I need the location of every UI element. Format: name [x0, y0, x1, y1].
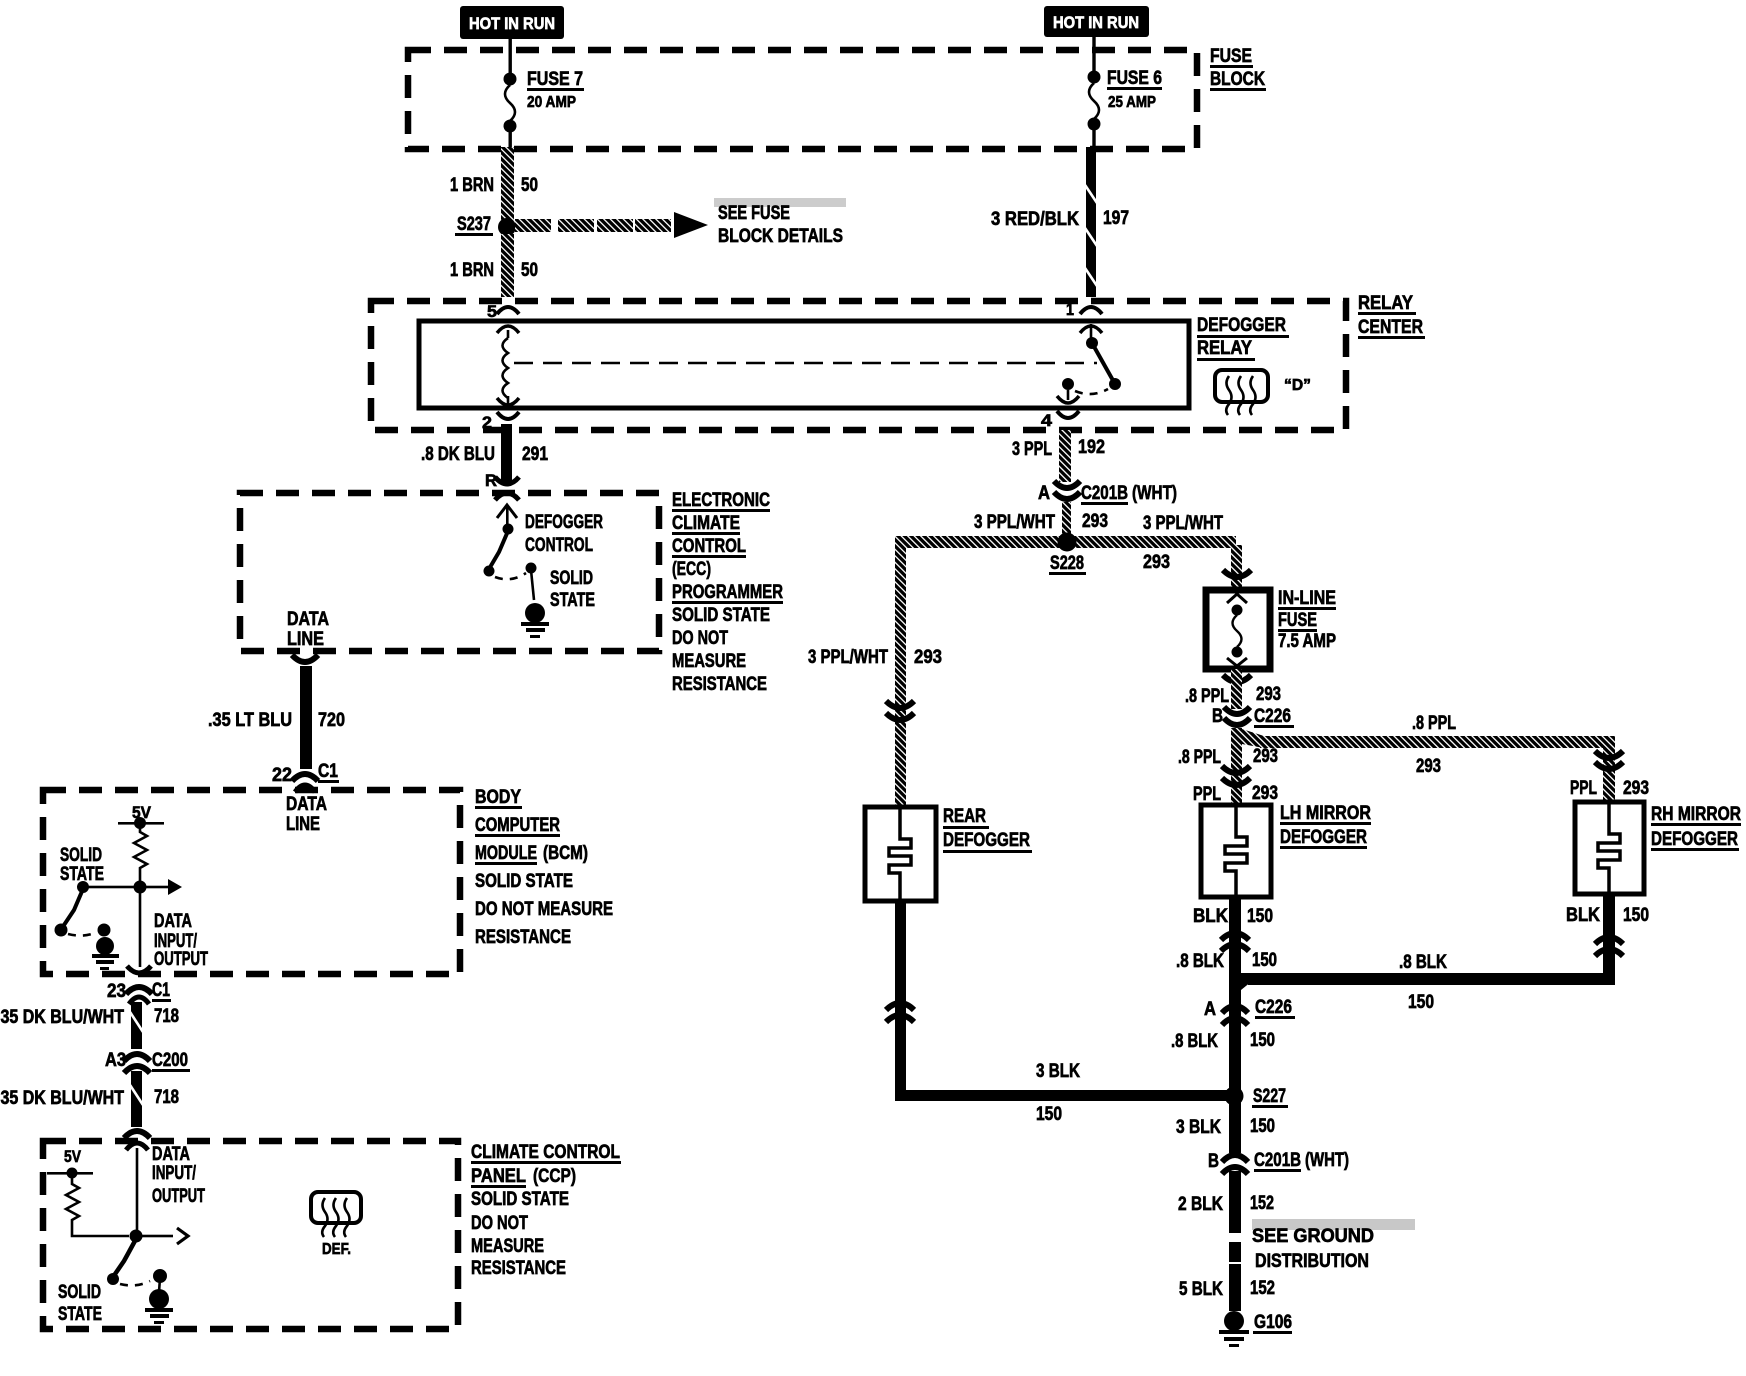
LH mirror defogger (box) — [1201, 805, 1271, 897]
svg-text:(WHT): (WHT) — [1305, 1150, 1349, 1171]
svg-text:FUSE: FUSE — [1210, 46, 1252, 67]
coil to switch dashed link — [514, 362, 1097, 365]
node DATA LINE (ECC) — [287, 609, 329, 650]
connector C226 pin A labels — [1204, 997, 1295, 1020]
wire 3 PPL 192 (relay to C201B), hatched — [1059, 430, 1071, 482]
svg-text:CLIMATE CONTROL: CLIMATE CONTROL — [471, 1142, 620, 1163]
note SEE GROUND DISTRIBUTION — [1252, 1219, 1415, 1272]
svg-text:.8 BLK: .8 BLK — [1176, 951, 1224, 972]
svg-text:293: 293 — [1082, 511, 1108, 532]
svg-text:DEFOGGER: DEFOGGER — [1280, 827, 1367, 848]
svg-text:293: 293 — [1416, 756, 1441, 777]
power label HOT IN RUN (left) — [460, 6, 564, 39]
defrost icon DEF. — [311, 1192, 361, 1258]
svg-text:PANEL: PANEL — [471, 1166, 526, 1187]
svg-text:152: 152 — [1250, 1193, 1274, 1214]
svg-text:.8 PPL: .8 PPL — [1178, 747, 1221, 768]
svg-text:RESISTANCE: RESISTANCE — [475, 927, 571, 948]
svg-text:BLK: BLK — [1193, 906, 1228, 927]
svg-text:A3: A3 — [105, 1050, 126, 1071]
svg-text:STATE: STATE — [550, 590, 595, 611]
svg-text:293: 293 — [1256, 684, 1281, 705]
splice S237 — [498, 218, 516, 236]
svg-text:50: 50 — [521, 260, 538, 281]
splice label S227 — [1252, 1086, 1288, 1108]
in-line fuse label — [1278, 588, 1336, 652]
svg-text:DEF.: DEF. — [322, 1241, 351, 1258]
svg-text:FUSE 6: FUSE 6 — [1107, 68, 1162, 89]
electronic climate control programmer (dashed box) — [240, 493, 659, 651]
svg-text:291: 291 — [522, 444, 548, 465]
svg-text:.8 BLK: .8 BLK — [1399, 952, 1447, 973]
wire label BLK 150 (RH) — [1566, 905, 1649, 926]
pin 2 exit chevrons — [497, 398, 519, 419]
svg-text:C201B: C201B — [1254, 1150, 1301, 1171]
wire .35 LT BLU 720 (ECC to BCM) — [300, 666, 312, 769]
wire 3 RED/BLK 197 (fuse 6 to relay), black with white slashes — [1085, 147, 1097, 297]
LH mirror heater element — [1225, 806, 1247, 896]
splice label S228 — [1049, 552, 1170, 575]
wire S228 to in-line fuse, hatched — [1231, 545, 1242, 587]
svg-text:.35 DK BLU/WHT: .35 DK BLU/WHT — [0, 1007, 124, 1028]
wire break segments (see ground distribution) — [1229, 1242, 1241, 1311]
wire BLK 150 below LH mirror — [1229, 897, 1241, 1097]
svg-text:23: 23 — [107, 981, 126, 1002]
defogger relay (inner solid box) — [419, 321, 1189, 408]
svg-text:25 AMP: 25 AMP — [1108, 94, 1156, 111]
wire .8 DK BLU 291 (relay pin 2 to ECC) — [501, 424, 512, 484]
ECC exit chevron — [292, 655, 318, 662]
BCM exit chevron — [127, 966, 151, 973]
svg-text:S227: S227 — [1253, 1086, 1286, 1107]
svg-text:150: 150 — [1623, 905, 1649, 926]
svg-text:3 PPL/WHT: 3 PPL/WHT — [808, 647, 888, 668]
svg-text:B: B — [1208, 1151, 1219, 1172]
svg-text:197: 197 — [1103, 208, 1129, 229]
svg-text:B: B — [1212, 706, 1223, 727]
wire .35 DK BLU/WHT 718 (23 to C200) — [130, 1002, 143, 1049]
wire continuation chevrons (left branch) — [886, 701, 914, 720]
defogger relay label — [1197, 315, 1289, 361]
svg-text:293: 293 — [1623, 778, 1649, 799]
RH mirror heater element — [1598, 803, 1620, 893]
svg-text:S237: S237 — [457, 214, 491, 235]
wire from HOT IN RUN to fuse 7 — [509, 39, 512, 75]
svg-text:.8 DK BLU: .8 DK BLU — [421, 444, 495, 465]
fuse block (dashed box) — [408, 50, 1197, 149]
ECC switch labels — [525, 512, 603, 611]
wire label .8 DK BLU 291 — [421, 444, 548, 465]
svg-text:RH MIRROR: RH MIRROR — [1651, 804, 1741, 825]
chevron above in-line fuse — [1223, 570, 1251, 577]
wire label 1 BRN 50 (lower) — [450, 260, 538, 281]
CCP data node and arrow — [130, 1228, 189, 1244]
svg-text:293: 293 — [1252, 783, 1278, 804]
wire label 1 BRN 50 (upper) — [450, 175, 538, 196]
svg-text:2: 2 — [482, 413, 492, 432]
continuation chevrons (LH ground wire) — [1221, 933, 1249, 951]
svg-text:C226: C226 — [1254, 706, 1291, 727]
wire .8 PPL 293 down to LH mirror, hatched — [1231, 728, 1242, 807]
wire 3 PPL/WHT 293 horizontal, hatched — [896, 536, 1236, 548]
svg-text:(CCP): (CCP) — [533, 1166, 576, 1187]
wire label 3 BLK 150 — [1176, 1116, 1275, 1138]
svg-text:C201B: C201B — [1081, 483, 1128, 504]
svg-text:BLOCK DETAILS: BLOCK DETAILS — [718, 226, 843, 247]
svg-text:FUSE 7: FUSE 7 — [527, 69, 583, 90]
connector C201B pin B — [1222, 1155, 1248, 1174]
svg-text:150: 150 — [1252, 950, 1277, 971]
connector C200 labels — [105, 1050, 190, 1072]
svg-text:SEE FUSE: SEE FUSE — [718, 203, 790, 224]
fuse F7 (FUSE 7 20 AMP) — [504, 73, 517, 150]
svg-text:4: 4 — [1041, 411, 1053, 430]
svg-text:152: 152 — [1250, 1278, 1275, 1299]
BCM label column — [475, 787, 613, 948]
BCM data node and arrow — [83, 879, 182, 895]
wire continuation chevrons (to LH mirror) — [1222, 766, 1250, 785]
pin 5 entry chevrons — [497, 307, 519, 333]
svg-text:718: 718 — [154, 1087, 179, 1108]
svg-text:COMPUTER: COMPUTER — [475, 815, 560, 836]
svg-text:20 AMP: 20 AMP — [527, 94, 576, 111]
wire .35 DK BLU/WHT 718 (C200 to CCP) — [130, 1071, 143, 1127]
relay coil — [503, 330, 510, 404]
splice label S237 — [455, 214, 493, 236]
svg-text:SOLID: SOLID — [58, 1282, 101, 1303]
svg-text:DISTRIBUTION: DISTRIBUTION — [1255, 1251, 1369, 1272]
svg-text:A: A — [1204, 999, 1216, 1020]
note SEE FUSE BLOCK DETAILS — [714, 198, 846, 247]
svg-text:(WHT): (WHT) — [1132, 483, 1177, 504]
svg-text:RESISTANCE: RESISTANCE — [672, 674, 767, 695]
svg-text:CLIMATE: CLIMATE — [672, 513, 740, 534]
relay switch — [1062, 324, 1121, 400]
svg-text:2 BLK: 2 BLK — [1178, 1194, 1223, 1215]
svg-text:MEASURE: MEASURE — [672, 651, 746, 672]
svg-text:.35 DK BLU/WHT: .35 DK BLU/WHT — [0, 1088, 124, 1109]
connector C226 pin B — [1224, 707, 1250, 725]
svg-text:150: 150 — [1036, 1104, 1062, 1125]
svg-text:720: 720 — [318, 710, 345, 731]
svg-text:50: 50 — [521, 175, 538, 196]
wire 3 BLK 150 horizontal (rear defogger to S227) — [895, 1090, 1235, 1101]
wire label .8 BLK 150 (below C226 A) — [1171, 1030, 1275, 1052]
svg-text:C1: C1 — [152, 980, 170, 1001]
svg-text:.8 BLK: .8 BLK — [1171, 1031, 1218, 1052]
svg-text:1 BRN: 1 BRN — [450, 175, 494, 196]
svg-text:FUSE: FUSE — [1278, 610, 1317, 631]
ECC label column — [672, 490, 783, 695]
svg-text:SOLID STATE: SOLID STATE — [475, 871, 573, 892]
svg-text:DO NOT MEASURE: DO NOT MEASURE — [475, 899, 613, 920]
svg-text:SOLID: SOLID — [550, 568, 593, 589]
pin 4 exit chevrons — [1057, 396, 1079, 418]
wire label PPL 293 (RH mirror) — [1570, 778, 1649, 799]
svg-text:RELAY: RELAY — [1358, 293, 1413, 314]
svg-text:REAR: REAR — [943, 806, 986, 827]
svg-text:MODULE: MODULE — [475, 843, 537, 864]
svg-text:STATE: STATE — [58, 1304, 102, 1325]
ground G106 — [1224, 1311, 1244, 1331]
connector C201B pin B labels — [1208, 1150, 1349, 1172]
svg-text:DATA: DATA — [154, 911, 192, 932]
splice S228 — [1058, 533, 1077, 552]
svg-text:HOT IN RUN: HOT IN RUN — [469, 14, 555, 33]
wire label .35 LT BLU 720 — [208, 710, 345, 731]
svg-text:DATA: DATA — [152, 1144, 190, 1165]
fuse F6 (FUSE 6 25 AMP) — [1088, 71, 1101, 150]
svg-text:LINE: LINE — [286, 814, 320, 835]
svg-text:150: 150 — [1408, 992, 1434, 1013]
RH mirror defogger label — [1651, 804, 1741, 851]
wire labels .8 PPL 293 (left vertical) — [1178, 746, 1278, 768]
ECC defogger control switch — [484, 505, 537, 600]
continuation chevrons (RH ground wire) — [1595, 937, 1623, 956]
svg-text:CENTER: CENTER — [1358, 317, 1423, 338]
CCP 5V supply — [47, 1147, 93, 1179]
wire from HOT IN RUN to fuse 6 — [1092, 37, 1095, 73]
wire 1 BRN 50 (fuse block to S237), hatched — [501, 147, 514, 221]
svg-text:.8 PPL: .8 PPL — [1185, 686, 1229, 707]
svg-text:5 BLK: 5 BLK — [1179, 1279, 1223, 1300]
chevron on RH branch — [1595, 751, 1623, 769]
svg-text:BLOCK: BLOCK — [1210, 69, 1265, 90]
CCP label column — [471, 1142, 621, 1279]
CCP pull-up resistor — [66, 1176, 129, 1236]
BCM output line to pin 23 — [139, 893, 142, 967]
svg-text:150: 150 — [1247, 906, 1273, 927]
svg-text:(ECC): (ECC) — [672, 559, 711, 580]
climate control panel (dashed box) — [43, 1141, 458, 1329]
svg-text:SEE GROUND: SEE GROUND — [1252, 1226, 1374, 1247]
rear defogger label — [943, 806, 1032, 853]
svg-text:SOLID STATE: SOLID STATE — [471, 1189, 569, 1210]
svg-text:5V: 5V — [64, 1147, 82, 1166]
svg-text:G106: G106 — [1254, 1312, 1292, 1333]
svg-text:DO NOT: DO NOT — [471, 1213, 528, 1234]
wire label 3 RED/BLK 197 — [991, 208, 1129, 230]
svg-text:“D”: “D” — [1284, 377, 1311, 394]
wire .8 PPL 293 (fuse to C226), hatched — [1231, 669, 1242, 709]
wire .8 PPL 293 horizontal to RH mirror, hatched — [1260, 736, 1615, 748]
RH branch: wire down to RH mirror, hatched — [1603, 748, 1615, 802]
svg-text:22: 22 — [272, 765, 292, 786]
BCM switch labels — [60, 845, 104, 885]
pin 1 entry chevrons — [1080, 307, 1102, 333]
svg-text:.35 LT BLU: .35 LT BLU — [208, 710, 292, 731]
ECC switch ground — [525, 603, 545, 623]
wire 3 PPL/WHT 293 left vertical to rear defogger, hatched — [895, 536, 906, 807]
connector C1 pin 22 labels — [272, 761, 339, 786]
svg-text:3 RED/BLK: 3 RED/BLK — [991, 209, 1079, 230]
wire label 5 BLK 152 — [1179, 1278, 1275, 1300]
svg-text:A: A — [1038, 483, 1050, 504]
svg-text:5: 5 — [487, 302, 497, 321]
relay icon "D" (defrost symbol) — [1215, 370, 1311, 415]
wire BLK 150 below RH mirror — [1603, 894, 1615, 984]
svg-text:3 PPL: 3 PPL — [1012, 439, 1052, 460]
BCM pull-up resistor — [134, 826, 147, 882]
CCP switch ground — [149, 1289, 169, 1309]
connector C201B pin A — [1054, 481, 1080, 499]
svg-text:3 PPL/WHT: 3 PPL/WHT — [1143, 513, 1223, 534]
branch bevel to horizontal .8 PPL — [1242, 729, 1264, 748]
in-line fuse element — [1227, 594, 1247, 666]
svg-text:LINE: LINE — [287, 629, 324, 650]
svg-text:OUTPUT: OUTPUT — [152, 1186, 205, 1207]
svg-text:293: 293 — [1253, 746, 1278, 767]
svg-text:DEFOGGER: DEFOGGER — [1651, 829, 1738, 850]
svg-text:DEFOGGER: DEFOGGER — [943, 830, 1030, 851]
svg-text:150: 150 — [1250, 1116, 1275, 1137]
rear defogger heater element — [889, 808, 911, 899]
relay center label — [1358, 293, 1425, 339]
wire labels .8 BLK 150 (horizontal) — [1399, 952, 1447, 1013]
svg-text:DEFOGGER: DEFOGGER — [525, 512, 603, 533]
connector C200 pin A3 — [124, 1054, 150, 1073]
connector C201B pin A labels — [1038, 483, 1177, 505]
wire BLK 150 below rear defogger — [895, 899, 906, 1095]
svg-text:150: 150 — [1250, 1030, 1275, 1051]
BCM switch ground — [96, 937, 114, 955]
splice S227 — [1225, 1087, 1244, 1106]
arrow to fuse block details — [515, 212, 708, 238]
svg-text:3 BLK: 3 BLK — [1036, 1061, 1080, 1082]
RH mirror defogger (box) — [1575, 802, 1644, 894]
CCP input line from entry — [136, 1148, 139, 1233]
svg-text:BODY: BODY — [475, 787, 521, 808]
svg-text:RESISTANCE: RESISTANCE — [471, 1258, 566, 1279]
wire label .8 PPL 293 — [1185, 684, 1281, 707]
svg-text:3 PPL/WHT: 3 PPL/WHT — [974, 512, 1055, 533]
wire .8 BLK 150 horizontal (RH mirror to LH wire) — [1248, 973, 1615, 985]
node DATA INPUT/OUTPUT (BCM) — [154, 911, 208, 970]
svg-text:PROGRAMMER: PROGRAMMER — [672, 582, 783, 603]
fuse block label — [1210, 46, 1266, 91]
svg-text:1: 1 — [1066, 300, 1074, 319]
svg-text:RELAY: RELAY — [1197, 338, 1252, 359]
node DATA INPUT/OUTPUT (CCP) — [152, 1144, 205, 1207]
CCP solid state switch — [107, 1239, 167, 1292]
merge bevel — [1241, 973, 1262, 990]
svg-text:SOLID: SOLID — [60, 845, 102, 866]
wire 1 BRN 50 (S237 to relay center), hatched — [501, 234, 514, 297]
wire label .35 DK BLU/WHT 718 (lower) — [0, 1087, 179, 1109]
connector C1 pin 23 — [126, 987, 152, 1004]
wire label PPL 293 (LH mirror) — [1193, 783, 1278, 805]
svg-text:C1: C1 — [318, 761, 338, 782]
wire label 2 BLK 152 — [1178, 1193, 1274, 1215]
wire label 3 PPL 192 — [1012, 437, 1105, 460]
power label HOT IN RUN (right) — [1044, 6, 1149, 37]
svg-text:3 BLK: 3 BLK — [1176, 1117, 1221, 1138]
wire 3 BLK 150 (S227 to C201B) — [1229, 1101, 1241, 1153]
svg-text:IN-LINE: IN-LINE — [1278, 588, 1336, 609]
BCM solid state switch — [55, 881, 111, 937]
connector C226 pin A — [1222, 1006, 1248, 1025]
wire label 3 BLK 150 (horizontal) — [1036, 1061, 1080, 1125]
wire label .35 DK BLU/WHT 718 (upper) — [0, 1006, 179, 1028]
wire label 3 PPL/WHT 293 (left branch) — [808, 647, 942, 668]
svg-text:7.5 AMP: 7.5 AMP — [1278, 631, 1336, 652]
svg-text:STATE: STATE — [60, 864, 104, 885]
fuse 6 value label — [1107, 68, 1162, 111]
svg-text:INPUT/: INPUT/ — [152, 1163, 197, 1184]
wire label .8 BLK 150 (LH, above C226) — [1176, 950, 1277, 972]
connector C226 pin B labels — [1212, 706, 1294, 728]
svg-text:DATA: DATA — [286, 794, 327, 815]
svg-text:SOLID STATE: SOLID STATE — [672, 605, 770, 626]
svg-text:DATA: DATA — [287, 609, 329, 630]
ground label G106 — [1253, 1312, 1292, 1334]
svg-text:ELECTRONIC: ELECTRONIC — [672, 490, 770, 511]
svg-text:CONTROL: CONTROL — [672, 536, 746, 557]
svg-text:1 BRN: 1 BRN — [450, 260, 494, 281]
connector C1 pin 23 labels — [107, 980, 171, 1002]
relay center (dashed box) — [371, 301, 1346, 430]
svg-text:OUTPUT: OUTPUT — [154, 949, 208, 970]
wire stub C201B to S228, hatched — [1062, 502, 1071, 536]
wire labels 3 PPL/WHT 293 — [974, 511, 1223, 534]
wire 2 BLK 152 — [1229, 1171, 1241, 1233]
svg-text:(BCM): (BCM) — [543, 843, 588, 864]
body computer module (dashed box) — [43, 790, 460, 974]
BCM 5V supply — [118, 803, 164, 829]
svg-text:C200: C200 — [152, 1050, 188, 1071]
ECC entry chevrons — [495, 477, 519, 500]
svg-text:CONTROL: CONTROL — [525, 535, 593, 556]
svg-text:HOT IN RUN: HOT IN RUN — [1053, 13, 1139, 32]
svg-text:BLK: BLK — [1566, 905, 1600, 926]
chevron below in-line fuse — [1223, 675, 1251, 682]
svg-text:S228: S228 — [1050, 553, 1084, 574]
wire label BLK 150 (LH) — [1193, 906, 1273, 927]
wire label BLK 150 is 3 BLK below; continuation chevrons — [886, 1003, 914, 1022]
CCP switch labels — [58, 1282, 102, 1325]
svg-text:LH MIRROR: LH MIRROR — [1280, 803, 1371, 824]
svg-text:192: 192 — [1078, 437, 1105, 458]
CCP entry chevrons — [124, 1131, 150, 1150]
connector C1 pin 22 — [292, 774, 318, 792]
svg-text:293: 293 — [914, 647, 942, 668]
svg-text:C226: C226 — [1255, 997, 1292, 1018]
svg-text:293: 293 — [1143, 552, 1170, 573]
svg-text:DO NOT: DO NOT — [672, 628, 728, 649]
wire labels .8 PPL 293 (horizontal) — [1412, 713, 1456, 777]
svg-text:PPL: PPL — [1570, 778, 1597, 799]
svg-text:.8 PPL: .8 PPL — [1412, 713, 1456, 734]
LH mirror defogger label — [1280, 803, 1371, 849]
rear defogger (box) — [865, 807, 936, 901]
svg-text:DEFOGGER: DEFOGGER — [1197, 315, 1286, 336]
svg-text:PPL: PPL — [1193, 784, 1221, 805]
in-line fuse (box) — [1206, 590, 1270, 669]
svg-text:MEASURE: MEASURE — [471, 1236, 544, 1257]
fuse 7 value label — [527, 69, 584, 111]
node DATA LINE (BCM) — [286, 794, 327, 835]
svg-text:718: 718 — [154, 1006, 179, 1027]
